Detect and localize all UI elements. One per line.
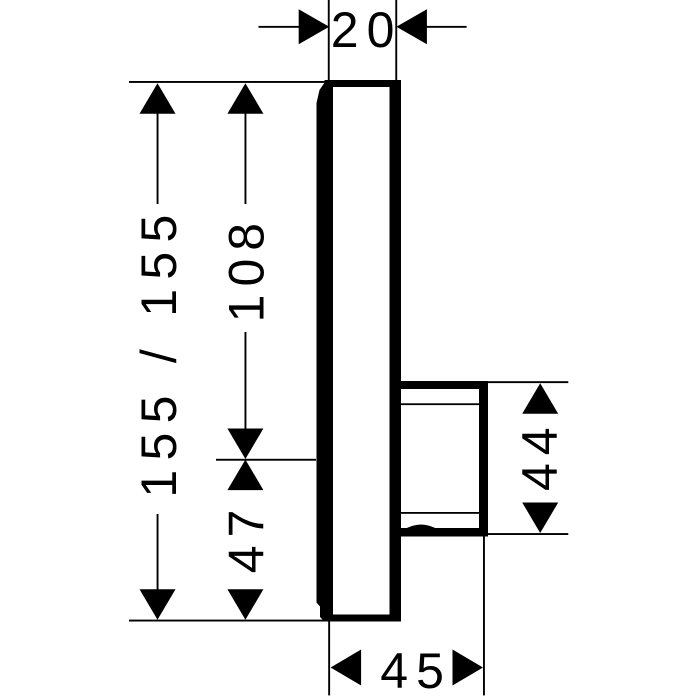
dim 155 top arrow (140, 83, 176, 114)
dim 108 line upper segment (245, 113, 247, 204)
extension line 44 top (460, 381, 568, 383)
extension line 45 left (328, 621, 330, 695)
bottom extension line (155/47) (129, 620, 326, 622)
dim 45 left arrow (331, 650, 362, 686)
extension line 20 right (395, 0, 397, 83)
basic set box top edge (399, 381, 488, 389)
top extension line (155/108) (129, 81, 330, 83)
svg-text:155 / 155: 155 / 155 (131, 205, 187, 497)
bump on box bottom edge (404, 525, 438, 530)
dim 20 right tail (426, 26, 467, 28)
svg-text:108: 108 (218, 215, 274, 322)
plate front face (thick bar, side view) (317, 81, 334, 622)
svg-text:20: 20 (331, 2, 403, 58)
dim 155 bottom arrow (140, 589, 176, 620)
plate right edge (390, 80, 402, 622)
dim 155 line lower segment (157, 514, 159, 590)
dim 108 bottom arrow (227, 429, 263, 460)
dim 47 bottom arrow (227, 589, 263, 620)
svg-text:44: 44 (512, 419, 568, 491)
dim 20 right arrow (396, 9, 427, 44)
dim 108 top arrow (227, 83, 263, 114)
extension line 44 bottom (470, 533, 568, 535)
dim 47 top arrow (227, 460, 263, 491)
dim 20 left arrow (299, 9, 330, 44)
box inner thin line bottom (401, 512, 480, 514)
dim 108 line lower segment (245, 332, 247, 429)
dim 20 left tail (259, 26, 300, 28)
mid extension line at valve axis (216, 459, 316, 461)
plate bottom edge (325, 615, 402, 622)
extension line 20 left (328, 0, 330, 85)
dim 44 bottom arrow (522, 503, 558, 534)
basic set box right edge (479, 381, 488, 537)
plate top edge (325, 80, 402, 87)
basic set box bottom edge (399, 528, 488, 537)
svg-text:45: 45 (380, 643, 452, 699)
svg-text:47: 47 (218, 502, 274, 574)
box inner thin line top (401, 403, 480, 405)
dim 155 line upper segment (157, 113, 159, 204)
extension line 45 right (483, 537, 485, 696)
dim 44 top arrow (522, 383, 558, 414)
dim 45 right arrow (453, 650, 484, 686)
